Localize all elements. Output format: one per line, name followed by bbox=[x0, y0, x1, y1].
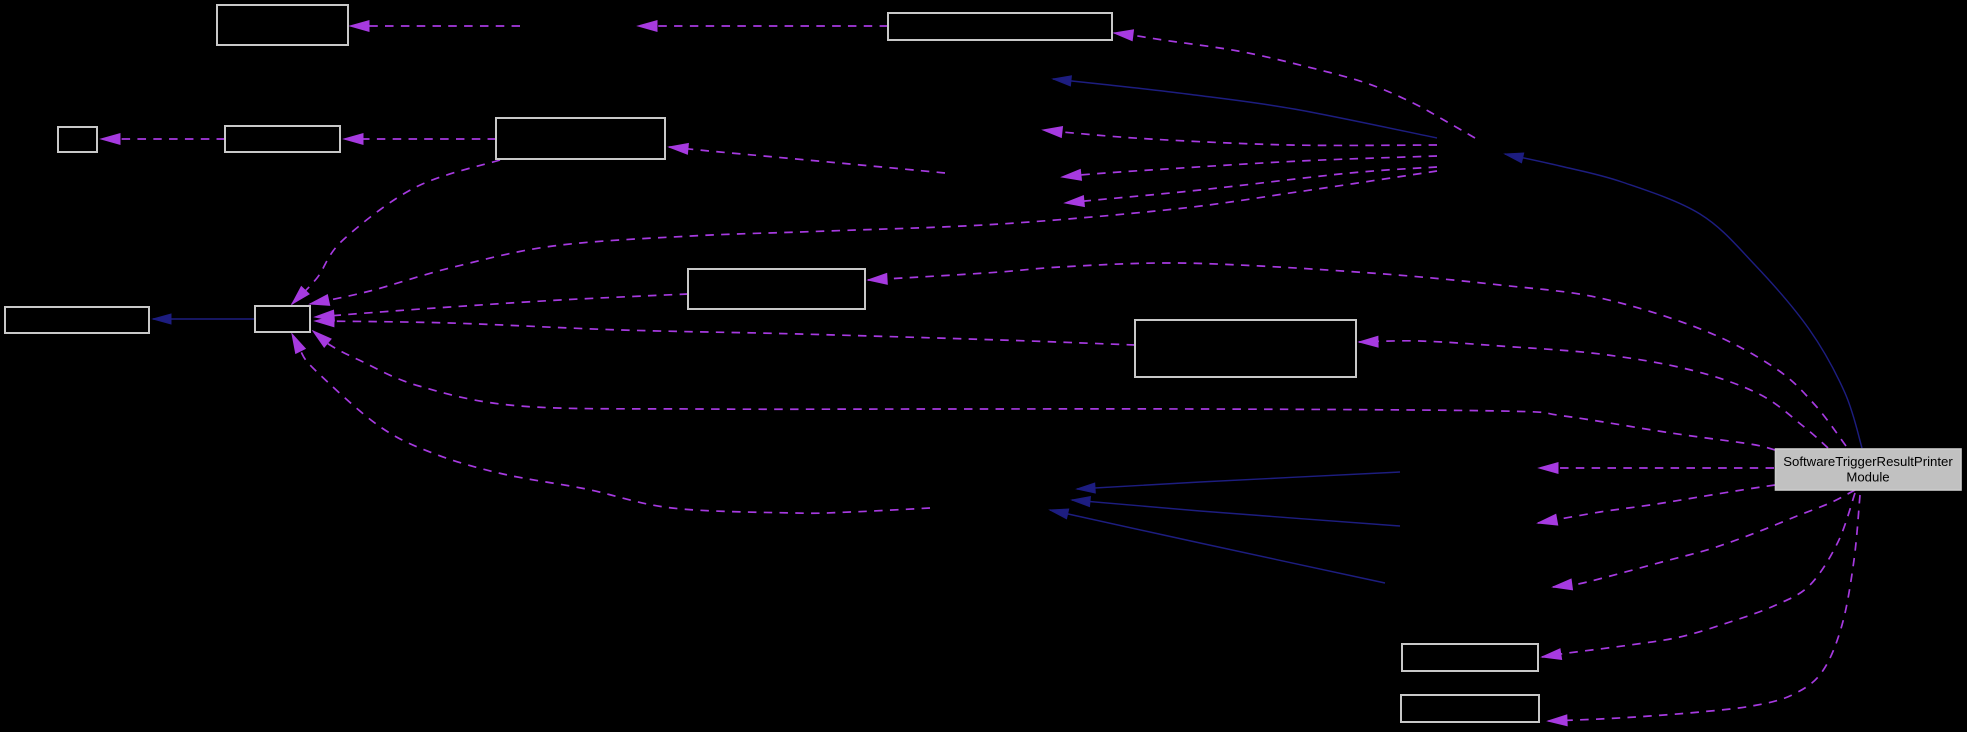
edge T2->IBtop bbox=[638, 21, 888, 32]
edge B1->T2 bbox=[1114, 30, 1475, 138]
node B7 bbox=[1402, 644, 1538, 671]
edge IBt->Hub bbox=[292, 334, 930, 513]
node S bbox=[58, 127, 97, 152]
edge Gray->IBc bbox=[1553, 490, 1855, 590]
edge B1->B3i bbox=[1043, 127, 1437, 146]
node B5 bbox=[688, 269, 865, 309]
node T2 bbox=[888, 13, 1112, 40]
edge B1->B5i bbox=[1065, 167, 1437, 207]
edge R2->S bbox=[101, 134, 225, 145]
node R2 bbox=[225, 126, 340, 152]
node SoftwareTriggerResultPrinterModule bbox=[1776, 449, 1962, 490]
edge IBb->IBt bbox=[1072, 497, 1400, 526]
edge Gray->B7 bbox=[1542, 493, 1855, 659]
node B8 bbox=[1401, 695, 1539, 722]
edge B3->R2 bbox=[344, 134, 496, 145]
edge B3->Hub bbox=[292, 160, 500, 304]
node B6 bbox=[1135, 320, 1356, 377]
edge Gray->Hub bbox=[313, 331, 1775, 450]
edge B6->Hub bbox=[315, 316, 1135, 345]
svg-text:Module: Module bbox=[1846, 470, 1889, 485]
edge Gray->IBb bbox=[1538, 485, 1775, 525]
svg-text:SoftwareTriggerResultPrinter: SoftwareTriggerResultPrinter bbox=[1783, 454, 1953, 469]
node T1 bbox=[217, 5, 348, 45]
node Hub bbox=[255, 306, 310, 332]
edge Gray->B6 bbox=[1359, 336, 1828, 448]
node B3 bbox=[496, 118, 665, 159]
node L bbox=[5, 307, 149, 333]
edge B1->B4i bbox=[1062, 156, 1437, 180]
edge B4i->B3 bbox=[669, 144, 945, 174]
edge B5->Hub bbox=[315, 294, 688, 321]
edge B1->B2i bbox=[1053, 76, 1437, 138]
edge Hub->L bbox=[153, 314, 255, 324]
edge Gray->IBa bbox=[1539, 463, 1774, 474]
edge IBa->IBt bbox=[1077, 472, 1400, 493]
edge Gray->B8 bbox=[1548, 495, 1860, 726]
edge IBc->IBt bbox=[1050, 509, 1385, 583]
edge Gray->B1 bbox=[1505, 153, 1862, 448]
edge B1->Hub bbox=[310, 171, 1437, 305]
edge IBtop->T1 bbox=[350, 21, 520, 32]
edge Gray->B5 bbox=[868, 263, 1846, 446]
